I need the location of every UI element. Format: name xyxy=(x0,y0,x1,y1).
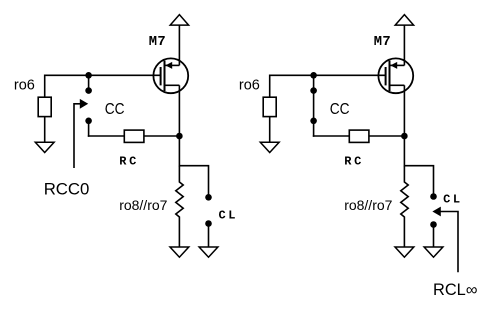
resistor ro6 (right) xyxy=(263,97,276,116)
capacitor CL port terminal lower (right, open) xyxy=(430,221,437,228)
wire gate node to ro6 (left) xyxy=(44,75,46,98)
junction node drain/RC (right) xyxy=(401,133,408,140)
wire tee to CL branch (left) xyxy=(179,166,208,198)
wire CC port upper stub (left) xyxy=(88,75,90,90)
wire CC shorted column (right) xyxy=(313,75,315,137)
wire tee to CL branch (right) xyxy=(404,166,433,197)
wire CC port lower stub (left) xyxy=(88,121,90,137)
ground below CL (left) xyxy=(199,247,218,257)
resistor ro6 (left) xyxy=(38,97,51,116)
wire VDD to M7 source (left) xyxy=(178,25,180,65)
resistor RC (right) xyxy=(349,130,369,142)
svg-text:CC: CC xyxy=(330,101,350,118)
wire CC column to RC (right) xyxy=(313,135,350,137)
junction node gate wire / CC short (right) xyxy=(310,72,317,79)
svg-text:ro8//ro7: ro8//ro7 xyxy=(344,197,392,213)
capacitor CC port terminal lower (left, open) xyxy=(85,118,92,125)
wire CL port to ground (right) xyxy=(433,225,435,248)
svg-text:M7: M7 xyxy=(374,35,391,50)
capacitor CL port terminal upper (left, open) xyxy=(205,194,212,201)
capacitor CC port terminal upper (left, open) xyxy=(85,87,92,94)
svg-text:ro6: ro6 xyxy=(14,77,35,93)
resistor RC (left) xyxy=(124,130,144,142)
ground below ro6 (left) xyxy=(35,142,54,152)
wire gate node to M7 gate (left) xyxy=(45,74,161,76)
capacitor CC port terminal lower (right, shorted) xyxy=(310,118,317,125)
wire gate node to M7 gate (right) xyxy=(270,74,386,76)
resistor ro8//ro7 zigzag (left) xyxy=(176,166,183,247)
capacitor CL port terminal upper (right, open) xyxy=(430,193,437,200)
wire CL port to ground (left) xyxy=(208,224,210,248)
wire CC port to RC (left) xyxy=(88,135,125,137)
ground below ro8//ro7 (left) xyxy=(170,247,189,257)
capacitor CL port terminal lower (left, open) xyxy=(205,220,212,227)
wire RC to drain rail (left) xyxy=(144,135,180,137)
wire RC to drain rail (right) xyxy=(369,135,405,137)
wire M7 drain rail (left) xyxy=(178,85,180,166)
probe arrow RCC0 into CC port (left) xyxy=(74,99,88,168)
probe arrow RCL into CL port (right) xyxy=(432,207,458,273)
power supply VDD symbol (right) xyxy=(395,15,413,26)
junction node drain/RC (left) xyxy=(176,133,183,140)
resistor ro8//ro7 zigzag (right) xyxy=(401,166,408,247)
wire M7 drain rail (right) xyxy=(403,85,405,166)
transistor M7 (right) xyxy=(378,58,413,93)
svg-text:CC: CC xyxy=(105,101,125,118)
transistor M7 (left) xyxy=(153,58,188,93)
ground below ro6 (right) xyxy=(260,142,279,152)
ground below CL (right) xyxy=(424,247,443,257)
wire ro6 to ground (right) xyxy=(269,117,271,143)
svg-text:ro8//ro7: ro8//ro7 xyxy=(119,197,167,213)
power supply VDD symbol (left) xyxy=(170,15,188,26)
wire VDD to M7 source (right) xyxy=(403,25,405,65)
junction node gate wire / CC port (left) xyxy=(85,72,92,79)
svg-text:RCC0: RCC0 xyxy=(44,180,90,199)
svg-text:RCL∞: RCL∞ xyxy=(433,281,477,299)
svg-text:ro6: ro6 xyxy=(239,77,260,93)
svg-text:M7: M7 xyxy=(149,35,166,50)
wire ro6 to ground (left) xyxy=(44,117,46,143)
ground below ro8//ro7 (right) xyxy=(395,247,414,257)
wire gate node to ro6 (right) xyxy=(269,75,271,98)
capacitor CC port terminal upper (right, shorted) xyxy=(310,87,317,94)
